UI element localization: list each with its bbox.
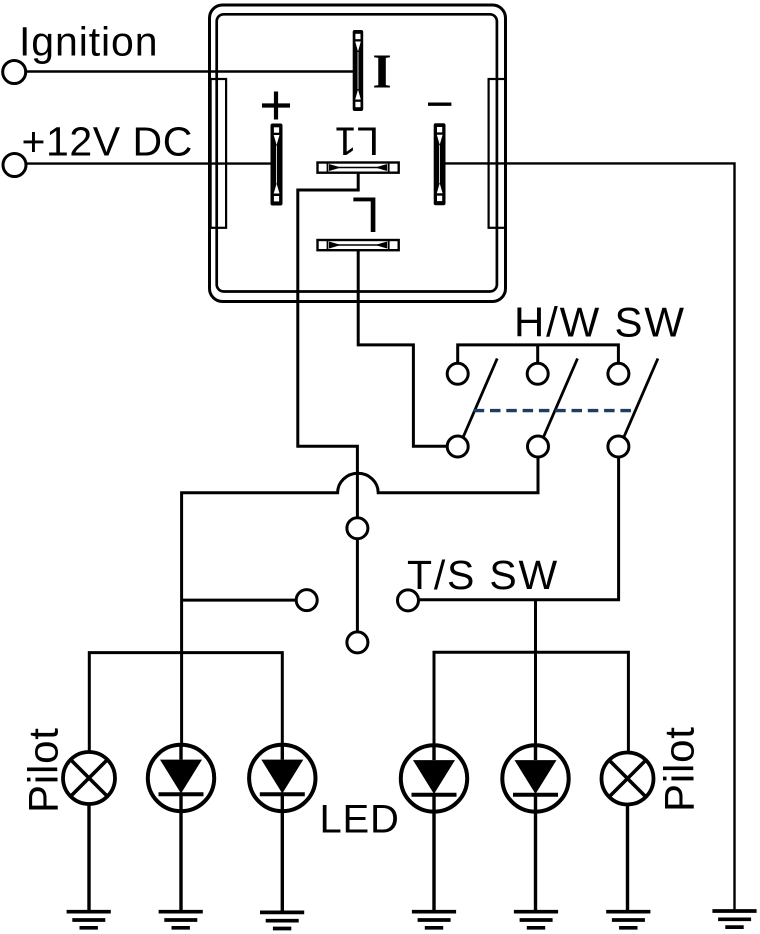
wire LED D1 to ground xyxy=(179,811,182,911)
svg-text:I: I xyxy=(373,44,392,99)
pin I blade xyxy=(353,30,364,111)
wire right branch to LED D3 xyxy=(534,652,537,745)
left lamp bus wire xyxy=(89,653,282,752)
terminal circle +12V xyxy=(3,154,26,177)
svg-text:+12V DC: +12V DC xyxy=(22,119,193,165)
relay left key tab xyxy=(211,79,227,228)
wire pilot right to ground xyxy=(626,805,629,912)
pin + blade xyxy=(271,124,283,206)
pilot lamp left (circle with X) xyxy=(63,752,115,804)
label minus xyxy=(428,102,451,105)
H/W switch S3 top contact xyxy=(608,363,629,384)
T/S switch lever xyxy=(356,539,359,632)
ground pilot left xyxy=(67,912,111,928)
pilot lamp right (circle with X) xyxy=(602,753,654,805)
wire +12V input xyxy=(26,162,271,164)
pin L blade (horizontal) xyxy=(318,240,399,250)
svg-text:H/W SW: H/W SW xyxy=(514,299,686,346)
svg-text:L: L xyxy=(352,187,380,243)
svg-text:Ignition: Ignition xyxy=(19,19,158,65)
relay U1 outer case xyxy=(210,5,506,302)
wire from L1 pin: jog left inside relay then down to T/S switch pole xyxy=(298,173,358,519)
dashed gang link (blue) xyxy=(474,409,633,412)
LED D2 xyxy=(249,745,315,812)
wire left bus to LED D1 xyxy=(180,653,183,745)
svg-text:T/S SW: T/S SW xyxy=(407,552,559,598)
H/W switch S2 top contact xyxy=(527,363,548,384)
H/W switch S2 bottom contact xyxy=(528,436,549,457)
pin - blade xyxy=(434,123,446,205)
H/W switch S1 bottom contact xyxy=(447,436,468,457)
ground pilot right xyxy=(606,912,650,928)
T/S switch bottom contact xyxy=(347,632,368,653)
right lamp bus wire xyxy=(434,652,628,752)
LED D3 xyxy=(401,745,467,812)
ground LED D2 xyxy=(260,912,304,928)
wire LED D4 to ground xyxy=(534,812,537,912)
relay right key tab xyxy=(489,79,506,228)
LED D4 xyxy=(502,745,568,812)
LED D1 xyxy=(148,745,214,812)
ground LED D1 xyxy=(159,912,203,928)
H/W switch top bus wire xyxy=(458,345,619,363)
ground LED D3 xyxy=(412,912,456,928)
wire from H/W S2 bottom contact, left with hop over pole wire, down to left lamp bus xyxy=(182,457,538,653)
T/S switch pole top contact xyxy=(347,518,368,539)
wire LED D3 to ground xyxy=(432,812,435,912)
terminal circle ignition xyxy=(3,61,26,84)
svg-text:Pilot: Pilot xyxy=(656,726,703,812)
wire from T/S left contact to left feed wire xyxy=(182,599,297,602)
relay U1 inner case xyxy=(217,14,497,291)
H/W switch S3 lever xyxy=(624,359,658,438)
H/W switch S1 top contact xyxy=(447,363,468,384)
ground LED D4 xyxy=(514,912,558,928)
wire LED D2 to ground xyxy=(281,811,284,912)
label + xyxy=(262,92,290,120)
wire ignition input xyxy=(26,70,353,72)
H/W switch S3 bottom contact xyxy=(608,436,629,457)
H/W switch S2 lever xyxy=(544,359,578,438)
wire from H/W S3 bottom contact down and left to T/S right contact xyxy=(419,457,619,600)
H/W switch S1 lever xyxy=(463,359,497,438)
ground far right xyxy=(712,911,756,927)
svg-text:Pilot: Pilot xyxy=(20,727,67,813)
T/S switch right contact xyxy=(398,590,419,611)
pin L1 blade (horizontal) xyxy=(318,163,399,173)
wire pilot left to ground xyxy=(87,804,90,911)
wire from L pin down, right, down to H/W switch bottom contact 1 xyxy=(358,250,447,446)
T/S switch left contact xyxy=(296,590,317,611)
svg-text:LED: LED xyxy=(320,798,400,842)
wire branch down to right lamp bus xyxy=(534,600,537,653)
wire from minus pin to far right and down to ground xyxy=(446,163,735,911)
svg-text:L1: L1 xyxy=(335,118,380,162)
